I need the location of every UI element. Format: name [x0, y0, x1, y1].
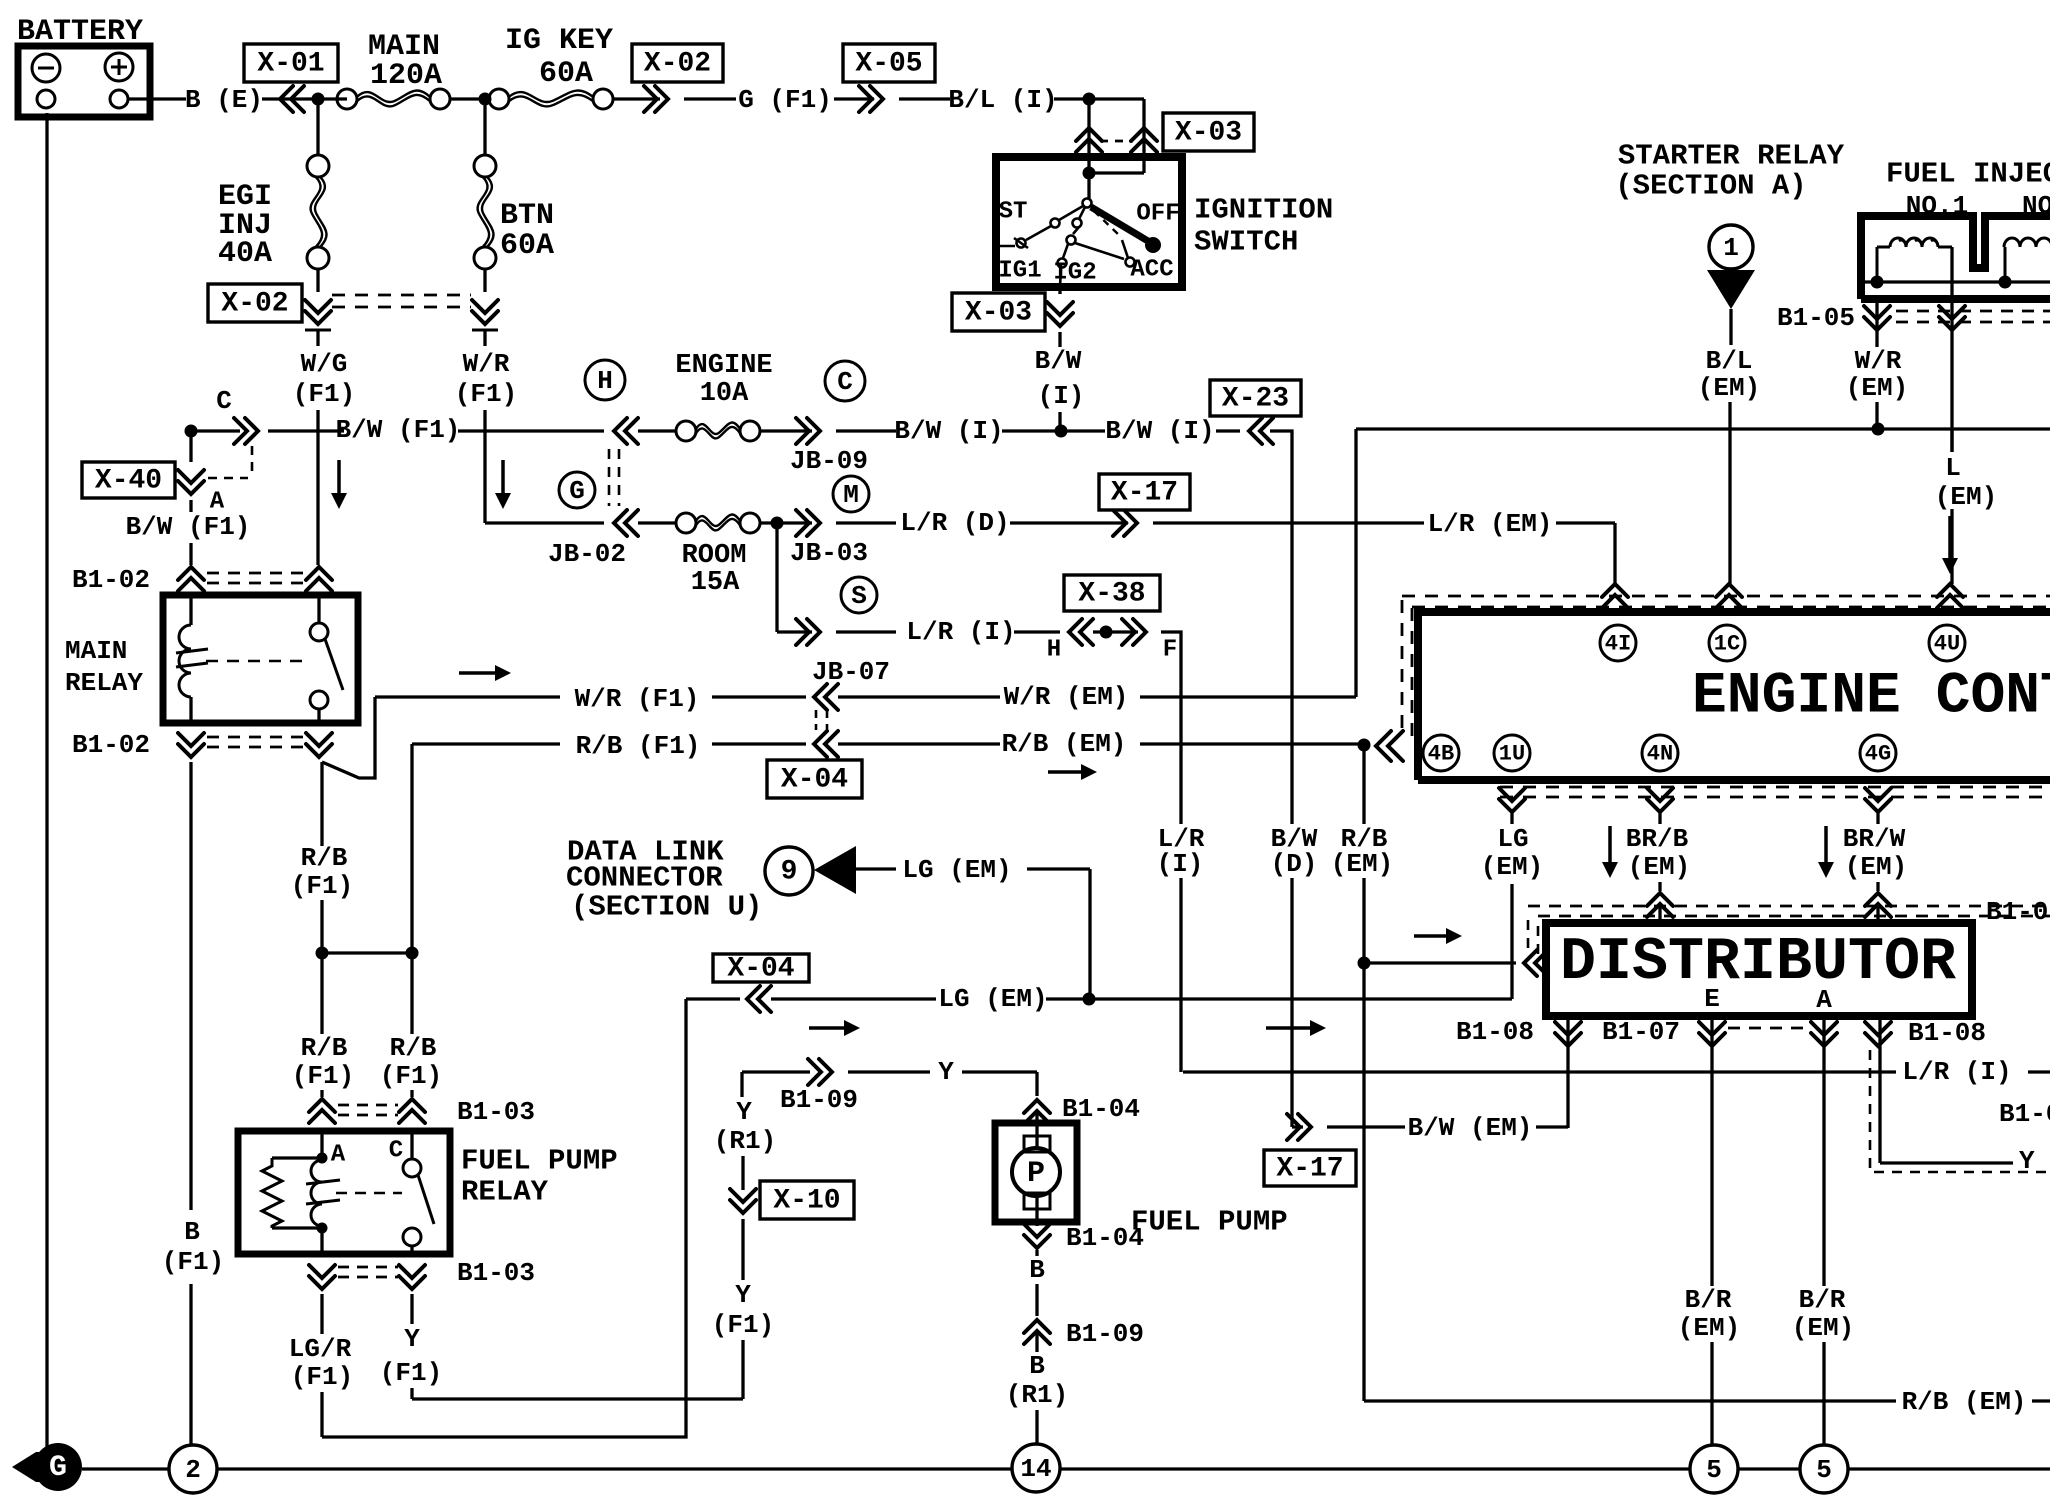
node B/L junction	[1083, 93, 1096, 106]
main relay K1	[163, 595, 358, 723]
svg-text:5: 5	[1816, 1455, 1832, 1485]
fuel pump relay coil	[320, 1131, 323, 1158]
connector B1-09	[808, 1059, 832, 1085]
svg-text:FUEL INJECTOR: FUEL INJECTOR	[1886, 158, 2050, 191]
connector JB-09	[796, 418, 820, 444]
svg-text:H: H	[597, 366, 613, 396]
fuel pump relay switch	[410, 1131, 413, 1159]
svg-text:SWITCH: SWITCH	[1194, 226, 1298, 259]
wire L/R (I) drop	[1161, 632, 1181, 824]
main relay actuation dashed	[206, 660, 306, 663]
connector B1-04 lower	[1024, 1224, 1050, 1248]
svg-text:W/R: W/R	[463, 349, 510, 379]
main relay coil	[189, 595, 192, 625]
svg-text:4B: 4B	[1428, 742, 1454, 767]
wire B/L (EM)	[1729, 309, 1732, 345]
node injector 2 junction inside	[1999, 276, 2012, 289]
connector X-01	[280, 86, 304, 112]
wire L (EM) from injector	[1950, 247, 1953, 299]
svg-text:60A: 60A	[539, 57, 593, 91]
ignition ST contact	[1059, 206, 1083, 220]
svg-text:9: 9	[781, 857, 798, 888]
wire B/W (I) from ignition	[1058, 332, 1061, 347]
svg-text:4N: 4N	[1647, 742, 1673, 767]
svg-text:W/G: W/G	[301, 349, 348, 379]
svg-text:(EM): (EM)	[1481, 852, 1543, 882]
ECU pin 1U	[1499, 788, 1525, 812]
fuse IG KEY 60A	[489, 89, 509, 109]
svg-text:(D): (D)	[1271, 849, 1318, 879]
svg-text:B/R: B/R	[1799, 1285, 1846, 1315]
wire into ignition switch	[1087, 126, 1090, 173]
svg-text:(EM): (EM)	[1698, 373, 1760, 403]
wire W/R (EM) riser to bus	[1354, 429, 1357, 697]
connector X-23	[1249, 418, 1273, 444]
wire distributor B1-08 right Y (EM)	[1878, 1016, 1881, 1163]
wire B/W (D) drop	[1270, 431, 1292, 824]
svg-text:B1-05: B1-05	[1777, 303, 1855, 333]
ignition IG2 contact	[1079, 207, 1085, 219]
svg-text:ROOM: ROOM	[682, 541, 747, 571]
svg-text:B/L: B/L	[1706, 346, 1753, 376]
svg-text:S: S	[851, 581, 867, 611]
svg-text:(EM): (EM)	[1678, 1313, 1740, 1343]
svg-text:JB-09: JB-09	[790, 446, 868, 476]
arrow row F	[1048, 770, 1083, 774]
svg-text:C: C	[216, 386, 232, 416]
connector B1-03 lower	[309, 1265, 335, 1289]
wire row B B/W (F1)	[191, 429, 240, 432]
svg-text:(F1): (F1)	[380, 1358, 442, 1388]
svg-text:A: A	[1816, 985, 1832, 1015]
wire W/R (EM) injector	[1875, 299, 1878, 347]
wire row E W/R	[375, 695, 560, 698]
arrow B1-08	[1266, 1026, 1312, 1030]
connector B1-05 pair	[1864, 306, 1890, 330]
svg-text:B/W (I): B/W (I)	[894, 416, 1003, 446]
connector B1-09 pump	[1024, 1320, 1050, 1344]
svg-text:Y: Y	[404, 1324, 420, 1354]
wire R/B to distributor	[1358, 957, 1371, 970]
svg-text:LG/R: LG/R	[289, 1334, 352, 1364]
fuel injector no.1 box	[1861, 216, 2050, 299]
circled S	[841, 577, 877, 613]
svg-text:L/R (EM): L/R (EM)	[1428, 509, 1553, 539]
connector X-02 row A	[644, 86, 668, 112]
svg-text:B1-09: B1-09	[1066, 1319, 1144, 1349]
fuse EGI INJ 40A	[316, 99, 319, 156]
node row B left junction	[185, 425, 198, 438]
svg-text:BR/B: BR/B	[1626, 824, 1689, 854]
svg-text:B/W (F1): B/W (F1)	[336, 415, 461, 445]
circled M	[833, 476, 869, 512]
svg-text:L/R (D): L/R (D)	[900, 508, 1009, 538]
svg-text:IG KEY: IG KEY	[505, 24, 613, 58]
svg-text:(EM): (EM)	[1845, 852, 1907, 882]
svg-text:R/B: R/B	[390, 1033, 437, 1063]
node W/R EM junction	[1872, 423, 1885, 436]
svg-text:(EM): (EM)	[1846, 373, 1908, 403]
svg-text:(I): (I)	[1038, 381, 1085, 411]
connector B1-07 left	[1647, 893, 1673, 917]
wire B (F1) to ground	[189, 762, 192, 1210]
wire B/W (F1) to main relay	[189, 431, 192, 462]
wire Y (F1) from relay	[410, 1294, 413, 1324]
distributor bottom connectors	[1555, 1022, 1581, 1046]
svg-text:X-04: X-04	[781, 765, 848, 796]
circled 1	[1709, 225, 1753, 269]
svg-text:R/B (EM): R/B (EM)	[1902, 1387, 2027, 1417]
wire distributor E to ground 5	[1710, 1016, 1713, 1286]
svg-text:1C: 1C	[1714, 632, 1740, 657]
node ignition B/W junction	[1055, 425, 1068, 438]
fuse MAIN 120A	[318, 97, 347, 100]
svg-text:(SECTION U): (SECTION U)	[571, 891, 762, 924]
connector X-02 BTN line	[472, 300, 498, 324]
wire R/B (F1) left column	[317, 723, 320, 726]
svg-text:X-38: X-38	[1078, 579, 1145, 610]
wire W/G (F1)	[316, 330, 319, 346]
svg-text:BTN: BTN	[500, 199, 554, 233]
fuel pump M1	[995, 1123, 1077, 1222]
svg-text:DISTRIBUTOR: DISTRIBUTOR	[1560, 929, 1956, 997]
svg-text:IG1: IG1	[998, 258, 1041, 285]
svg-text:BATTERY: BATTERY	[17, 15, 143, 49]
ECU pin 4B	[1423, 735, 1459, 771]
svg-text:4I: 4I	[1605, 632, 1631, 657]
arrow into distributor	[1414, 934, 1448, 938]
fuse BTN 60A	[483, 99, 486, 156]
svg-text:C: C	[389, 1138, 403, 1165]
svg-text:B1-03: B1-03	[457, 1258, 535, 1288]
connector C row B	[234, 418, 258, 444]
svg-text:RELAY: RELAY	[65, 668, 143, 698]
svg-text:LG: LG	[1497, 824, 1528, 854]
wire Y (R1) stub	[740, 1072, 743, 1097]
node battery feed junction	[312, 93, 325, 106]
connector B1-07 right	[1865, 893, 1891, 917]
svg-text:X-17: X-17	[1111, 478, 1178, 509]
svg-text:B/W (F1): B/W (F1)	[126, 512, 251, 542]
svg-text:X-03: X-03	[1175, 118, 1242, 149]
svg-text:X-04: X-04	[727, 954, 794, 985]
svg-text:(F1): (F1)	[292, 1061, 354, 1091]
svg-text:Y: Y	[938, 1057, 954, 1087]
svg-text:B/R: B/R	[1685, 1285, 1732, 1315]
svg-text:1U: 1U	[1499, 742, 1525, 767]
connector X-04 lower	[814, 731, 838, 757]
svg-text:(F1): (F1)	[291, 871, 353, 901]
svg-text:R/B: R/B	[301, 843, 348, 873]
arrow row G	[809, 1026, 846, 1030]
svg-text:R/B: R/B	[301, 1033, 348, 1063]
circled G	[559, 472, 595, 508]
connector JB-07 X-04 upper	[814, 684, 838, 710]
svg-text:B1-08: B1-08	[1908, 1018, 1986, 1048]
svg-text:L/R (I): L/R (I)	[906, 617, 1015, 647]
wire row G LG	[686, 997, 740, 1000]
svg-text:B1-09: B1-09	[780, 1085, 858, 1115]
distributor	[1546, 923, 1972, 1016]
svg-text:(EM): (EM)	[1331, 849, 1393, 879]
connector JB-07	[796, 619, 820, 645]
svg-text:E: E	[1704, 984, 1720, 1014]
wire W/R (F1)	[483, 330, 486, 346]
svg-text:JB-02: JB-02	[548, 539, 626, 569]
wire B/W (EM)	[1327, 1125, 1405, 1128]
svg-text:G (F1): G (F1)	[738, 85, 832, 115]
connector B1-02 lower	[178, 733, 204, 757]
svg-text:(EM): (EM)	[1935, 482, 1997, 512]
fuel pump relay dashed actuation	[336, 1192, 402, 1195]
connector X-40	[178, 470, 204, 494]
connector X-17 row C	[1113, 510, 1137, 536]
svg-text:(F1): (F1)	[293, 379, 355, 409]
svg-text:4G: 4G	[1865, 742, 1891, 767]
svg-text:MAIN: MAIN	[65, 636, 127, 666]
wire R/B (EM) bottom row	[1364, 1399, 1896, 1402]
wire LG riser to ECU 1U	[1510, 884, 1513, 999]
svg-text:FUEL PUMP: FUEL PUMP	[461, 1145, 618, 1178]
svg-text:40A: 40A	[218, 237, 272, 271]
svg-text:(F1): (F1)	[162, 1247, 224, 1277]
svg-text:JB-07: JB-07	[812, 657, 890, 687]
connector H JB-02	[614, 418, 638, 444]
distributor harness dashed	[1527, 920, 1530, 956]
svg-text:B/L (I): B/L (I)	[948, 85, 1057, 115]
ignition ACC contact	[1094, 211, 1121, 237]
wire row C from BTN fuse	[485, 521, 604, 524]
svg-text:R/B (EM): R/B (EM)	[1002, 729, 1127, 759]
svg-text:X-02: X-02	[221, 289, 288, 320]
ignition OFF blade	[1091, 207, 1148, 241]
svg-text:B: B	[1029, 1255, 1045, 1285]
svg-text:(I): (I)	[1157, 849, 1204, 879]
svg-text:B1-03: B1-03	[457, 1097, 535, 1127]
connector X-38 right	[1122, 619, 1146, 645]
ECU pin 4G	[1865, 788, 1891, 812]
node main fuse junction	[479, 93, 492, 106]
svg-text:(R1): (R1)	[714, 1126, 776, 1156]
node LG junction	[1083, 993, 1096, 1006]
connector B1-04 upper	[1024, 1100, 1050, 1124]
svg-text:B1-02: B1-02	[72, 730, 150, 760]
svg-text:W/R: W/R	[1855, 346, 1902, 376]
wire distributor A to ground 5	[1822, 1016, 1825, 1286]
ground bus wire	[82, 1467, 169, 1470]
connector ECU 4B	[1376, 731, 1403, 761]
node room fuse junction	[771, 517, 784, 530]
svg-text:(EM): (EM)	[1792, 1313, 1854, 1343]
svg-text:(F1): (F1)	[712, 1310, 774, 1340]
connector distributor left	[1524, 950, 1548, 976]
connector X-38 left	[1069, 619, 1093, 645]
svg-text:B1-0: B1-0	[1999, 1099, 2050, 1129]
fuel pump relay K2	[238, 1131, 450, 1254]
svg-text:120A: 120A	[370, 59, 442, 93]
node R/B ECU junction	[1358, 739, 1371, 752]
fuel pump relay resistor	[262, 1158, 282, 1228]
circled 2	[169, 1445, 217, 1493]
svg-text:(F1): (F1)	[291, 1362, 353, 1392]
svg-text:2: 2	[185, 1455, 201, 1485]
circled C	[825, 361, 865, 401]
connector X-03 pair	[1076, 128, 1102, 152]
wire LG (EM) upper	[856, 867, 896, 870]
svg-text:JB-03: JB-03	[790, 538, 868, 568]
node R/B jumper right	[406, 947, 419, 960]
ECU pin 4U	[1937, 584, 1963, 608]
svg-text:IG2: IG2	[1053, 260, 1096, 287]
svg-text:B1-02: B1-02	[72, 565, 150, 595]
connector X-10	[730, 1189, 756, 1213]
svg-text:(F1): (F1)	[455, 379, 517, 409]
svg-text:4U: 4U	[1934, 632, 1960, 657]
fuel injector no.2 coil	[2004, 238, 2050, 247]
wire L (EM)	[1950, 299, 1953, 452]
svg-text:P: P	[1027, 1157, 1045, 1191]
ignition IG1 contact	[1063, 244, 1068, 258]
svg-text:X-05: X-05	[855, 49, 922, 80]
connector B1-03 upper	[309, 1099, 335, 1123]
svg-text:ENGINE CONT: ENGINE CONT	[1692, 665, 2050, 730]
connector X-03 below ignition	[1058, 287, 1061, 294]
svg-text:M: M	[843, 480, 859, 510]
svg-text:OFF: OFF	[1136, 201, 1179, 228]
arrow W/G annotation	[337, 460, 341, 495]
svg-text:L/R (I): L/R (I)	[1902, 1057, 2011, 1087]
arrow row E	[459, 671, 497, 675]
svg-text:(F1): (F1)	[380, 1061, 442, 1091]
wire LG/R (F1)	[320, 1294, 323, 1334]
svg-text:1: 1	[1723, 233, 1739, 263]
svg-text:A: A	[331, 1142, 346, 1169]
circled H	[585, 360, 625, 400]
svg-text:14: 14	[1020, 1454, 1051, 1484]
connector X-05	[859, 86, 883, 112]
bus wire to injectors	[1356, 427, 2050, 430]
svg-text:X-10: X-10	[773, 1186, 840, 1217]
svg-text:F: F	[1163, 637, 1177, 664]
JB-02 dashed link	[608, 449, 611, 506]
svg-text:FUEL PUMP: FUEL PUMP	[1131, 1206, 1288, 1239]
svg-text:X-03: X-03	[965, 298, 1032, 329]
svg-text:60A: 60A	[500, 229, 554, 263]
svg-text:W/R (EM): W/R (EM)	[1004, 682, 1129, 712]
injector common wire	[1862, 280, 2050, 283]
svg-text:X-02: X-02	[644, 49, 711, 80]
svg-text:LG (EM): LG (EM)	[938, 984, 1047, 1014]
svg-text:C: C	[837, 367, 853, 397]
circled 14	[1012, 1444, 1060, 1492]
connector X-04 LG	[747, 986, 771, 1012]
ignition switch S1	[996, 157, 1182, 287]
fuel injector no.1 coil	[1890, 238, 1938, 247]
ECU pin 1C	[1716, 584, 1742, 608]
svg-text:STARTER RELAY: STARTER RELAY	[1618, 140, 1845, 173]
svg-text:Y: Y	[736, 1097, 752, 1127]
battery B1	[18, 46, 150, 117]
arrow JB-02 annotation	[501, 460, 505, 495]
circled 9	[765, 847, 813, 895]
svg-text:5: 5	[1706, 1455, 1722, 1485]
wire row F R/B	[410, 744, 413, 953]
svg-text:G: G	[569, 476, 585, 506]
svg-text:W/R (F1): W/R (F1)	[575, 684, 700, 714]
svg-text:B: B	[184, 1217, 200, 1247]
fuse ENGINE 10A	[676, 421, 696, 441]
svg-text:X-17: X-17	[1276, 1154, 1343, 1185]
svg-text:B1-07: B1-07	[1986, 897, 2050, 927]
connector X-02 EGI line	[305, 300, 331, 324]
connector X-17 lower	[1292, 1125, 1303, 1128]
connector JB-03	[796, 510, 820, 536]
svg-text:B1-07: B1-07	[1602, 1017, 1680, 1047]
wire battery negative to ground	[45, 113, 48, 1447]
fuse ROOM 15A	[676, 513, 696, 533]
svg-text:G: G	[49, 1451, 67, 1485]
svg-text:R/B (F1): R/B (F1)	[576, 731, 701, 761]
svg-text:(SECTION A): (SECTION A)	[1615, 170, 1806, 203]
connector G JB-02	[614, 510, 638, 536]
svg-text:ST: ST	[999, 199, 1028, 226]
svg-text:B/W: B/W	[1035, 346, 1082, 376]
starter relay arrow	[1707, 270, 1755, 309]
svg-text:10A: 10A	[700, 379, 749, 409]
wire R/B (F1) columns to fuel pump relay	[320, 953, 323, 1034]
svg-text:B (E): B (E)	[185, 85, 263, 115]
wire L/R (I) row	[1183, 1070, 1896, 1073]
svg-text:X-40: X-40	[95, 466, 162, 497]
connector B1-02 upper	[178, 567, 204, 591]
svg-text:IGNITION: IGNITION	[1194, 194, 1333, 227]
ignition rotor pivot	[1083, 199, 1092, 208]
wire R/B (EM) column	[1362, 745, 1365, 824]
circled 5 left	[1690, 1445, 1738, 1493]
data link arrow	[814, 846, 856, 894]
circled 5 right	[1800, 1445, 1848, 1493]
svg-text:(EM): (EM)	[1628, 852, 1690, 882]
ECU pin 4I	[1602, 584, 1628, 608]
wire BR/B (EM)	[1658, 812, 1661, 824]
svg-text:X-23: X-23	[1222, 384, 1289, 415]
wire BR/W (EM)	[1876, 812, 1879, 824]
svg-text:H: H	[1047, 637, 1061, 664]
svg-text:B: B	[1029, 1351, 1045, 1381]
wire Y into fuel pump	[1035, 1072, 1038, 1096]
svg-text:B/W (I): B/W (I)	[1105, 416, 1214, 446]
svg-text:X-01: X-01	[257, 49, 324, 80]
svg-text:ENGINE: ENGINE	[675, 351, 772, 381]
wire distributor B1-08 left to B/W	[1566, 1016, 1569, 1128]
wire battery positive B (E)	[128, 97, 186, 100]
wire to ECU pin 4I	[1613, 523, 1616, 584]
wire Y row	[742, 1070, 810, 1073]
ECU pin 4N	[1647, 788, 1673, 812]
svg-text:B1-08: B1-08	[1456, 1017, 1534, 1047]
wire row D	[777, 630, 812, 633]
svg-text:Y: Y	[735, 1280, 751, 1310]
ground symbol	[12, 1452, 36, 1482]
svg-text:B/W (EM): B/W (EM)	[1408, 1113, 1533, 1143]
svg-text:B1-04: B1-04	[1066, 1223, 1144, 1253]
node R/B jumper left	[316, 947, 329, 960]
wire main relay switch to W/R row	[322, 697, 375, 778]
svg-text:(R1): (R1)	[1006, 1380, 1068, 1410]
wire B/L to ignition switch	[1089, 97, 1144, 100]
engine control unit	[1418, 612, 2050, 780]
wire row D drop from room fuse	[775, 523, 778, 632]
